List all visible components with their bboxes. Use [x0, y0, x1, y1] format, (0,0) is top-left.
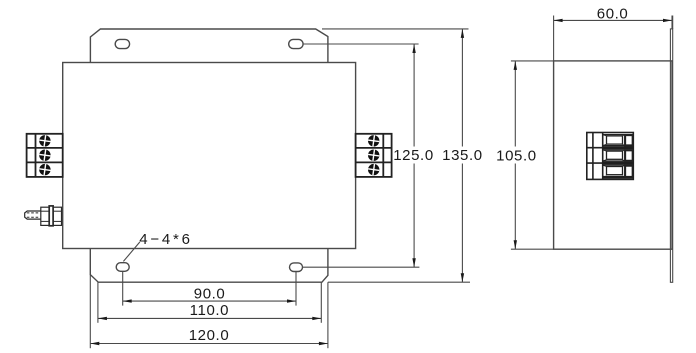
svg-text:90.0: 90.0 — [194, 286, 226, 303]
svg-text:110.0: 110.0 — [190, 302, 229, 319]
svg-text:120.0: 120.0 — [189, 327, 230, 344]
svg-text:105.0: 105.0 — [496, 147, 537, 164]
svg-text:4−4*6: 4−4*6 — [139, 231, 193, 248]
svg-text:125.0: 125.0 — [393, 147, 434, 164]
svg-text:60.0: 60.0 — [597, 5, 629, 22]
svg-text:135.0: 135.0 — [442, 147, 483, 164]
